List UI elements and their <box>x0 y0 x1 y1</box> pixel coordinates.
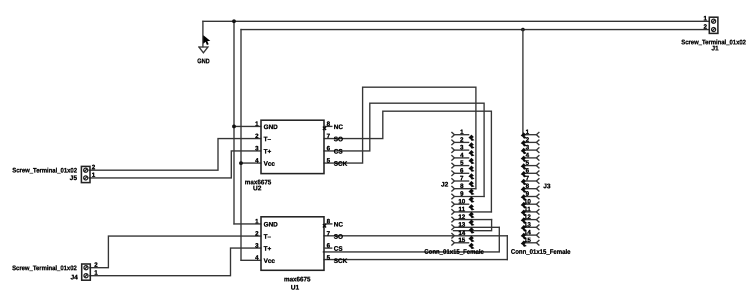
svg-text:14: 14 <box>458 230 465 237</box>
svg-text:Vcc: Vcc <box>264 161 276 168</box>
svg-text:T+: T+ <box>264 246 272 253</box>
svg-text:15: 15 <box>524 237 531 244</box>
U2 right pin names <box>334 124 348 168</box>
svg-text:4: 4 <box>526 152 530 159</box>
svg-text:10: 10 <box>458 198 465 205</box>
J2 pin 14 <box>452 230 475 242</box>
U2 left pin numbers 1-4 <box>255 121 259 165</box>
svg-text:GND: GND <box>264 222 279 229</box>
U2 right pin numbers 8-5 <box>327 121 331 165</box>
svg-text:U2: U2 <box>253 185 262 192</box>
J3 pin 4 <box>521 152 539 162</box>
svg-text:J2: J2 <box>441 182 449 189</box>
U2 pin 8 NC stub and X marker <box>324 125 332 127</box>
J3 pin 9 <box>521 191 539 201</box>
svg-text:Conn_01x15_Female: Conn_01x15_Female <box>511 249 571 256</box>
svg-text:Conn_01x15_Female: Conn_01x15_Female <box>424 249 484 256</box>
svg-text:J5: J5 <box>70 175 78 182</box>
svg-text:2: 2 <box>526 137 530 144</box>
svg-text:J1: J1 <box>711 45 719 52</box>
svg-text:GND: GND <box>264 124 279 131</box>
svg-text:7: 7 <box>327 231 331 238</box>
J2 pin 1 <box>452 129 475 141</box>
svg-text:3: 3 <box>255 145 259 152</box>
J2 pin 3 <box>452 144 475 156</box>
svg-text:5: 5 <box>327 158 331 165</box>
wire GND net vertical x=234 down to U1 pin 1 <box>233 21 235 224</box>
J2 pin 12 <box>452 214 492 226</box>
svg-text:6: 6 <box>460 167 464 174</box>
svg-text:T–: T– <box>264 234 272 241</box>
J3 pin 11 <box>521 206 539 216</box>
J3 pin 13 <box>521 221 539 231</box>
wire U2 SCK to J2 pin 8 <box>324 87 476 189</box>
J2 pin 7 <box>452 175 475 187</box>
J2 pin 9 <box>452 191 484 203</box>
svg-text:7: 7 <box>460 175 464 182</box>
ground symbol GND <box>197 47 210 65</box>
svg-text:7: 7 <box>526 175 530 182</box>
svg-text:5: 5 <box>526 160 530 167</box>
wire U1 SO / J2 pin 14 row <box>324 235 507 237</box>
svg-text:12: 12 <box>524 214 531 221</box>
wire U2 Vcc pin 4 <box>241 162 261 164</box>
svg-text:2: 2 <box>704 24 708 31</box>
U1 right pin numbers 8-5 <box>327 218 331 261</box>
svg-text:1: 1 <box>460 129 464 136</box>
connector J1 Screw_Terminal_01x02 (top right) <box>681 15 746 52</box>
svg-text:Screw_Terminal_01x02: Screw_Terminal_01x02 <box>12 167 77 174</box>
svg-text:2: 2 <box>255 133 259 140</box>
svg-text:8: 8 <box>460 183 464 190</box>
wire Vcc net vertical x=241 down to U1 pin 4 <box>240 30 242 261</box>
J2 pin 5 <box>452 160 475 172</box>
U2 left pin names <box>264 124 279 168</box>
svg-text:15: 15 <box>458 237 465 244</box>
J2 pin 11 <box>452 206 492 218</box>
svg-text:T–: T– <box>264 136 272 143</box>
J2 pin 2 <box>452 137 475 149</box>
J2 pin 10 <box>452 198 475 210</box>
node junction GND top <box>232 19 236 23</box>
svg-text:SCK: SCK <box>334 161 348 168</box>
svg-text:2: 2 <box>92 164 96 171</box>
svg-text:1: 1 <box>255 121 259 128</box>
IC U1 max6675 body <box>261 217 324 270</box>
svg-text:GND: GND <box>197 58 210 65</box>
J2 pin 15 <box>452 237 475 249</box>
J3 pin 10 <box>521 198 539 208</box>
svg-text:5: 5 <box>327 255 331 262</box>
J2 pin 13 <box>452 221 499 233</box>
wire U1 Vcc pin 4 <box>241 259 261 261</box>
J3 pin 3 <box>521 144 539 154</box>
wire U2 CS to J2 pin 9 <box>324 103 484 196</box>
svg-text:U1: U1 <box>291 285 300 292</box>
wire J5 pin 1 to U2 T+ <box>89 151 261 178</box>
J3 pin 2 <box>521 137 539 147</box>
svg-text:3: 3 <box>460 144 464 151</box>
svg-text:4: 4 <box>255 255 259 262</box>
wire vertical joining SO row to SCK row x=507.3 <box>506 236 508 260</box>
svg-text:CS: CS <box>334 149 344 156</box>
wire U2 GND pin 1 <box>234 125 261 127</box>
wire U2 SO to J2 pin 11 <box>324 111 491 212</box>
U1 left pin numbers 1-4 <box>255 218 259 261</box>
svg-text:2: 2 <box>460 137 464 144</box>
wire Vcc net top horizontal to J1 pin 2 <box>241 29 709 31</box>
node junction Vcc top / J3 pin 1 tap <box>521 28 525 32</box>
svg-text:Vcc: Vcc <box>264 258 276 265</box>
J3 pin 8 <box>521 183 539 193</box>
svg-text:2: 2 <box>255 230 259 237</box>
svg-text:8: 8 <box>526 183 530 190</box>
J3 pin 6 <box>521 167 539 177</box>
node junction U2 Vcc <box>239 161 243 165</box>
J3 pin 5 <box>521 160 539 170</box>
svg-text:1: 1 <box>526 129 530 136</box>
svg-text:CS: CS <box>334 246 344 253</box>
svg-text:1: 1 <box>255 218 259 225</box>
wire U1 GND pin 1 <box>234 223 261 225</box>
svg-text:10: 10 <box>524 198 531 205</box>
svg-text:3: 3 <box>526 144 530 151</box>
svg-text:13: 13 <box>524 221 531 228</box>
svg-text:4: 4 <box>460 152 464 159</box>
J3 pin 7 <box>521 175 539 185</box>
svg-text:NC: NC <box>334 124 344 131</box>
wire GND symbol stub <box>202 21 204 47</box>
svg-text:11: 11 <box>459 206 466 213</box>
svg-text:9: 9 <box>460 191 464 198</box>
svg-text:SCK: SCK <box>334 258 348 265</box>
svg-text:2: 2 <box>94 262 98 269</box>
wire J4 pin 1 to U1 T+ <box>90 248 261 276</box>
U1 pin 8 NC stub and X marker <box>324 223 332 225</box>
node junction U2 GND <box>232 125 236 129</box>
wire U1 CS long wire <box>323 227 499 252</box>
J2 pin 6 <box>452 167 475 179</box>
svg-text:11: 11 <box>524 206 531 213</box>
U1 right pin names <box>334 222 348 265</box>
svg-text:6: 6 <box>327 145 331 152</box>
svg-text:SO: SO <box>334 136 343 143</box>
J3 pin 12 <box>521 214 539 224</box>
J3 pin 14 <box>521 229 539 239</box>
svg-text:J3: J3 <box>543 183 551 190</box>
wire GND net top horizontal to J1 pin 1 <box>203 20 709 22</box>
svg-text:5: 5 <box>460 160 464 167</box>
wire J5 pin 2 to U2 T- <box>89 139 261 171</box>
J3 pin 1 <box>521 129 539 139</box>
svg-text:12: 12 <box>458 214 465 221</box>
svg-text:4: 4 <box>255 157 259 164</box>
wire Vcc drop to J3 pin 1 <box>523 30 526 135</box>
J3 pin 15 <box>521 237 539 247</box>
svg-text:14: 14 <box>524 229 531 236</box>
svg-text:7: 7 <box>327 133 331 140</box>
svg-text:3: 3 <box>255 242 259 249</box>
wire J4 pin 2 to U1 T- <box>90 236 261 268</box>
svg-text:1: 1 <box>92 172 96 179</box>
mouse cursor arrow <box>203 35 210 45</box>
U1 pin 6 CS stub <box>324 247 332 249</box>
svg-text:max6675: max6675 <box>284 276 311 283</box>
wire U1 SCK row <box>324 259 507 261</box>
svg-text:NC: NC <box>334 222 344 229</box>
IC U2 max6675 body <box>261 120 324 173</box>
svg-text:6: 6 <box>526 167 530 174</box>
svg-text:9: 9 <box>526 191 530 198</box>
connector J5 Screw_Terminal_01x02 (left) <box>12 164 95 182</box>
svg-text:13: 13 <box>458 221 465 228</box>
svg-text:SO: SO <box>334 234 343 241</box>
U1 left pin names <box>264 222 279 265</box>
J2 pin 8 <box>452 183 476 195</box>
svg-text:T+: T+ <box>264 149 272 156</box>
svg-text:Screw_Terminal_01x02: Screw_Terminal_01x02 <box>12 265 77 272</box>
svg-text:1: 1 <box>94 270 98 277</box>
connector J4 Screw_Terminal_01x02 (bottom left) <box>12 262 98 282</box>
svg-text:1: 1 <box>704 15 708 22</box>
svg-text:J4: J4 <box>70 274 78 281</box>
wire J2 pin 12 drop <box>454 220 492 231</box>
J2 pin 4 <box>452 152 475 164</box>
